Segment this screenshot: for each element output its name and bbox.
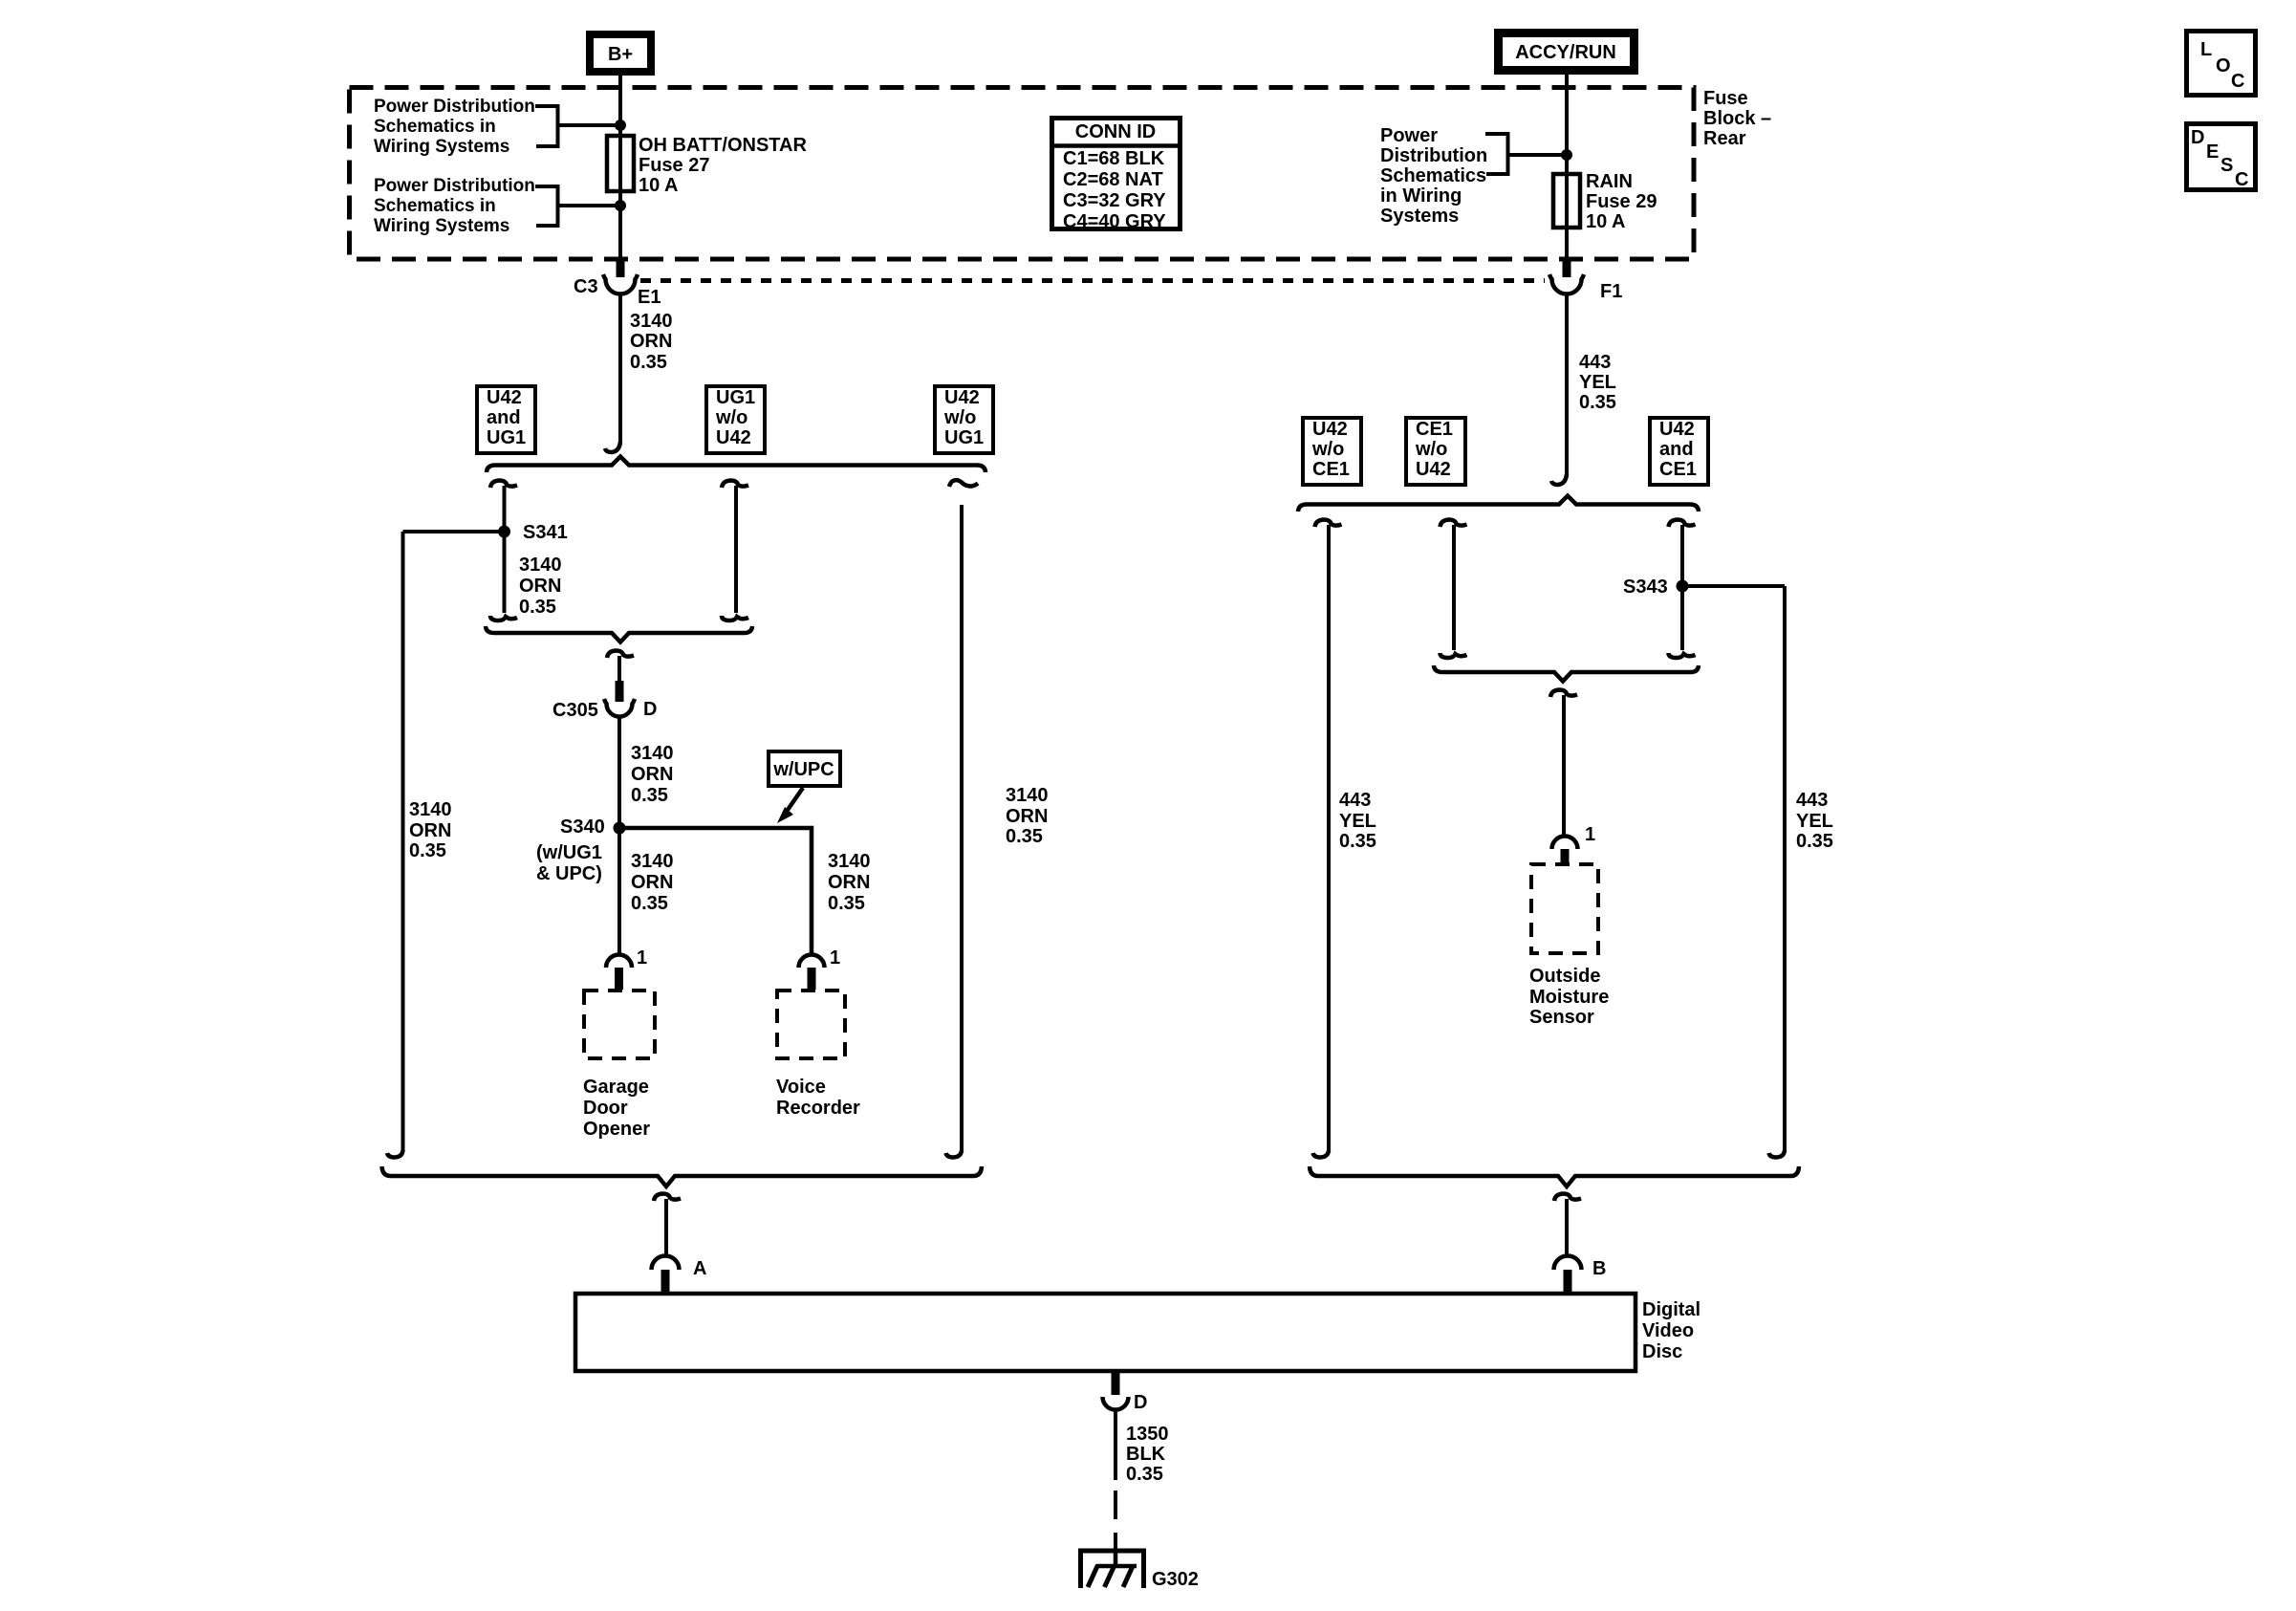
svg-text:Rear: Rear [1703, 128, 1746, 149]
svg-text:Digital: Digital [1642, 1299, 1700, 1320]
svg-text:S341: S341 [523, 522, 568, 543]
svg-text:ORN: ORN [1006, 806, 1048, 827]
svg-text:0.35: 0.35 [1796, 831, 1833, 852]
option box UG1 w/o U42 [706, 386, 765, 453]
wire to moisture sensor [1562, 695, 1566, 837]
svg-text:Door: Door [583, 1098, 628, 1119]
branch curl U42 and UG1 [490, 481, 517, 489]
splice S340 [614, 822, 626, 835]
svg-text:UG1: UG1 [716, 387, 755, 408]
connector stub C305 [616, 681, 624, 702]
junction dot lower left [615, 200, 626, 211]
wire S340 horizontal to voice recorder branch [619, 828, 812, 955]
svg-text:Schematics in: Schematics in [374, 196, 496, 216]
label wire 443 YEL right branch [1796, 790, 1833, 852]
svg-text:C4=40 GRY: C4=40 GRY [1063, 211, 1166, 232]
svg-text:Sensor: Sensor [1529, 1007, 1594, 1028]
component box Digital Video Disc [575, 1294, 1635, 1371]
connector dome moisture sensor [1552, 837, 1578, 850]
svg-text:3140: 3140 [828, 851, 871, 872]
connector stub voice recorder [808, 968, 816, 990]
wire dashed ground lead [1114, 1491, 1117, 1568]
svg-text:Outside: Outside [1529, 966, 1600, 987]
fuse F29 symbol [1553, 174, 1580, 228]
svg-text:S: S [2220, 155, 2233, 176]
svg-text:0.35: 0.35 [1339, 831, 1376, 852]
svg-text:w/o: w/o [715, 407, 747, 428]
connector F1 cup [1549, 274, 1584, 294]
svg-text:3140: 3140 [409, 799, 452, 820]
option box U42 w/o CE1 [1303, 418, 1361, 485]
branch tilde U42 w/o UG1 [949, 480, 978, 487]
svg-text:Block –: Block – [1703, 108, 1771, 129]
svg-text:U42: U42 [487, 387, 522, 408]
svg-text:C3: C3 [574, 276, 598, 297]
svg-text:443: 443 [1339, 790, 1371, 811]
branch curl U42 w/o CE1 [1315, 520, 1342, 528]
svg-text:Moisture: Moisture [1529, 987, 1609, 1008]
svg-text:and: and [1659, 439, 1694, 460]
option box CE1 w/o U42 [1406, 418, 1465, 485]
gather brace bottom right [1310, 1166, 1799, 1186]
wire to DVD pin B [1565, 1199, 1569, 1256]
wire branch U42 and CE1 [1680, 525, 1684, 650]
svg-text:w/o: w/o [1415, 439, 1447, 460]
svg-text:ORN: ORN [409, 820, 451, 841]
reference bracket lower [535, 186, 558, 226]
svg-text:C3=32 GRY: C3=32 GRY [1063, 190, 1166, 211]
label wire 3140 ORN right long [1006, 785, 1049, 847]
wire end curl right long 443 [1769, 1150, 1786, 1158]
curl below gather brace left [607, 651, 634, 659]
wire D ground lead [1114, 1409, 1117, 1480]
component box Outside Moisture Sensor [1531, 864, 1598, 953]
svg-text:D: D [1134, 1392, 1147, 1413]
wire left long vertical [401, 532, 405, 1152]
wire right long vertical [960, 505, 964, 1152]
svg-text:0.35: 0.35 [1006, 826, 1043, 847]
svg-text:0.35: 0.35 [631, 785, 668, 806]
svg-text:443: 443 [1796, 790, 1828, 811]
ground symbol G302 [1081, 1551, 1144, 1588]
svg-text:Fuse 27: Fuse 27 [639, 155, 709, 176]
component box Voice Recorder [777, 991, 845, 1058]
svg-text:443: 443 [1579, 352, 1611, 373]
svg-text:10 A: 10 A [1586, 211, 1626, 232]
wire C305 to S340 [617, 716, 621, 828]
connector stub C3 [617, 261, 625, 277]
svg-text:Recorder: Recorder [776, 1098, 860, 1119]
svg-text:w/o: w/o [1311, 439, 1344, 460]
label Fuse Block - Rear [1703, 88, 1771, 149]
svg-text:1: 1 [1585, 824, 1595, 845]
component box Garage Door Opener [584, 991, 655, 1058]
svg-text:1: 1 [830, 947, 840, 969]
wire end curl left feed [605, 442, 620, 452]
svg-text:in Wiring: in Wiring [1380, 185, 1462, 207]
connector stub garage door opener [615, 968, 623, 990]
svg-text:0.35: 0.35 [1579, 392, 1616, 413]
note Power Distribution (right side) [1380, 125, 1487, 227]
label wire 3140 ORN below C305 [631, 743, 674, 806]
arrow w/UPC [777, 788, 803, 823]
label wire 3140 ORN below S341 [519, 555, 562, 618]
label S340 [536, 816, 605, 884]
svg-text:3140: 3140 [631, 743, 674, 764]
svg-text:0.35: 0.35 [409, 840, 446, 861]
svg-text:Voice: Voice [776, 1077, 826, 1098]
svg-text:ORN: ORN [630, 331, 672, 352]
svg-text:U42: U42 [1416, 459, 1451, 480]
wire S343 horizontal [1682, 584, 1785, 588]
svg-text:Schematics in: Schematics in [374, 117, 496, 137]
svg-text:ORN: ORN [631, 872, 673, 893]
wire right long vertical (443) [1783, 586, 1787, 1152]
wire end curl right feed [1551, 474, 1567, 485]
wire branch CE1 w/o U42 [1452, 525, 1456, 650]
svg-text:w/o: w/o [943, 407, 976, 428]
svg-text:L: L [2200, 39, 2212, 60]
wire bracket lower to junction [558, 204, 621, 207]
svg-text:Schematics: Schematics [1380, 165, 1486, 186]
svg-text:F1: F1 [1600, 281, 1622, 302]
connector C3/E1 cup [603, 274, 638, 294]
connector D cup [1103, 1397, 1129, 1410]
fuse F27 symbol [607, 136, 634, 191]
svg-text:O: O [2216, 55, 2231, 76]
svg-text:C: C [2231, 71, 2244, 92]
svg-text:U42: U42 [716, 427, 751, 448]
junction dot upper left [615, 120, 626, 131]
splitter brace left top [487, 457, 986, 473]
svg-text:w/UPC: w/UPC [772, 759, 834, 780]
svg-text:E: E [2206, 142, 2219, 163]
label Garage Door Opener [583, 1077, 650, 1140]
svg-text:U42: U42 [1312, 419, 1348, 440]
svg-text:Disc: Disc [1642, 1341, 1682, 1362]
connector stub B [1564, 1270, 1572, 1293]
wire B+ feed vertical [618, 76, 622, 261]
svg-text:Garage: Garage [583, 1077, 649, 1098]
connector C305 cup [604, 699, 635, 717]
svg-text:ACCY/RUN: ACCY/RUN [1515, 42, 1616, 63]
svg-text:3140: 3140 [519, 555, 562, 576]
svg-text:(w/UG1: (w/UG1 [536, 842, 602, 863]
connector dome A [652, 1256, 680, 1271]
svg-text:UG1: UG1 [944, 427, 984, 448]
fuse block - rear dashed outline [350, 88, 1695, 260]
svg-text:BLK: BLK [1126, 1444, 1166, 1465]
svg-text:G302: G302 [1152, 1569, 1199, 1590]
label Outside Moisture Sensor [1529, 966, 1609, 1028]
branch curl UG1 w/o U42 [722, 481, 748, 489]
svg-text:ORN: ORN [828, 872, 870, 893]
wire bracket right to junction [1508, 153, 1568, 157]
connector stub F1 [1563, 261, 1571, 277]
label wire 3140 ORN left feed [630, 311, 673, 373]
power symbol ACCY/RUN [1499, 33, 1635, 71]
splice S341 [498, 526, 510, 538]
svg-text:0.35: 0.35 [828, 893, 865, 914]
connector stub moisture sensor [1561, 849, 1570, 864]
svg-text:& UPC): & UPC) [536, 863, 602, 884]
connector dome garage door opener [606, 955, 632, 968]
svg-text:0.35: 0.35 [631, 893, 668, 914]
connector stub D [1112, 1373, 1120, 1395]
wire end curl U42 w/o CE1 [1313, 1150, 1330, 1158]
branch bottom curl CE1 w/o U42 [1440, 653, 1467, 658]
curl below bottom right brace [1554, 1194, 1581, 1202]
svg-text:CONN ID: CONN ID [1075, 121, 1156, 142]
dotted in-line harness connector line [640, 278, 1545, 283]
svg-text:D: D [643, 699, 657, 720]
svg-text:0.35: 0.35 [1126, 1464, 1163, 1485]
wire end curl left long [387, 1150, 403, 1158]
junction dot right [1561, 149, 1572, 161]
svg-text:Systems: Systems [1380, 206, 1459, 227]
wire bracket upper to junction [558, 123, 621, 127]
label Digital Video Disc [1642, 1299, 1700, 1362]
note Power Distribution Schematics (lower) [374, 176, 535, 236]
wire E1 down [618, 294, 622, 445]
svg-text:D: D [2191, 127, 2204, 148]
svg-text:0.35: 0.35 [519, 597, 556, 618]
power symbol B+ [590, 34, 651, 72]
branch bottom curl U42 and CE1 [1669, 653, 1696, 658]
wire S340 down to garage door opener [617, 828, 621, 955]
label fuse 29 [1586, 171, 1657, 232]
reference bracket right [1485, 134, 1508, 174]
legend box LOC [2187, 32, 2256, 96]
svg-text:1: 1 [637, 947, 647, 969]
svg-text:Power: Power [1380, 125, 1438, 146]
svg-text:Video: Video [1642, 1320, 1694, 1341]
svg-text:CE1: CE1 [1312, 459, 1350, 480]
svg-text:1350: 1350 [1126, 1424, 1169, 1445]
svg-text:CE1: CE1 [1659, 459, 1697, 480]
label wire 3140 ORN garage branch [631, 851, 674, 914]
svg-text:ORN: ORN [519, 576, 561, 597]
gather brace bottom left [382, 1166, 983, 1186]
svg-text:B: B [1592, 1258, 1606, 1279]
svg-text:E1: E1 [638, 287, 661, 308]
svg-text:Power Distribution: Power Distribution [374, 176, 535, 196]
svg-text:3140: 3140 [1006, 785, 1049, 806]
curl below gather brace right [1550, 690, 1577, 698]
connector dome B [1554, 1256, 1582, 1271]
svg-text:B+: B+ [608, 44, 633, 65]
svg-text:C1=68 BLK: C1=68 BLK [1063, 148, 1165, 169]
note Power Distribution Schematics (upper) [374, 97, 535, 157]
branch bottom curl U42 and UG1 [490, 616, 517, 620]
gather brace right [1434, 665, 1699, 682]
svg-text:Fuse 29: Fuse 29 [1586, 191, 1657, 212]
branch bottom curl UG1 w/o U42 [722, 616, 748, 620]
svg-text:Distribution: Distribution [1380, 145, 1487, 166]
branch curl U42 and CE1 [1669, 520, 1696, 528]
option flag w/UPC [769, 751, 840, 786]
table CONN ID [1050, 119, 1180, 233]
reference bracket upper [535, 106, 558, 146]
wire ACCY/RUN feed vertical [1565, 75, 1569, 261]
svg-text:Wiring Systems: Wiring Systems [374, 137, 509, 157]
label wire 443 YEL right feed [1579, 352, 1616, 413]
wire branch U42 and UG1 [503, 486, 507, 613]
splitter brace right top [1298, 496, 1699, 512]
svg-text:CE1: CE1 [1416, 419, 1453, 440]
svg-text:Wiring Systems: Wiring Systems [374, 216, 509, 236]
svg-text:Opener: Opener [583, 1119, 650, 1140]
option box U42 and CE1 [1650, 418, 1708, 485]
svg-text:C305: C305 [552, 700, 598, 721]
svg-text:YEL: YEL [1796, 811, 1833, 832]
connector dome voice recorder [799, 955, 825, 968]
svg-text:U42: U42 [1659, 419, 1695, 440]
wire branch UG1 w/o U42 [734, 486, 738, 613]
wire branch U42 w/o CE1 long vertical [1327, 525, 1331, 1152]
svg-text:S343: S343 [1623, 577, 1668, 598]
legend box DESC [2187, 124, 2256, 191]
svg-text:0.35: 0.35 [630, 352, 667, 373]
connector stub A [661, 1270, 670, 1293]
option box U42 and UG1 [477, 386, 535, 453]
svg-text:C2=68 NAT: C2=68 NAT [1063, 169, 1163, 190]
svg-text:RAIN: RAIN [1586, 171, 1633, 192]
svg-text:YEL: YEL [1339, 811, 1376, 832]
svg-text:Power Distribution: Power Distribution [374, 97, 535, 117]
label Voice Recorder [776, 1077, 860, 1119]
splice S343 [1677, 580, 1689, 593]
svg-text:C: C [2235, 169, 2248, 190]
svg-text:YEL: YEL [1579, 372, 1616, 393]
svg-text:OH BATT/ONSTAR: OH BATT/ONSTAR [639, 135, 807, 156]
label fuse 27 [639, 135, 807, 196]
option box U42 w/o UG1 [935, 386, 993, 453]
svg-text:ORN: ORN [631, 764, 673, 785]
label wire 443 YEL left branch [1339, 790, 1376, 852]
wire F1 down [1565, 294, 1569, 477]
label wire 3140 ORN left long [409, 799, 452, 861]
svg-text:and: and [487, 407, 521, 428]
branch curl CE1 w/o U42 [1440, 520, 1467, 528]
wire S341 horizontal [403, 530, 505, 533]
svg-text:U42: U42 [944, 387, 980, 408]
wire to C305 [617, 656, 621, 683]
label wire 3140 ORN voice branch [828, 851, 871, 914]
svg-text:3140: 3140 [630, 311, 673, 332]
svg-text:3140: 3140 [631, 851, 674, 872]
svg-text:S340: S340 [560, 816, 605, 838]
svg-text:UG1: UG1 [487, 427, 526, 448]
svg-text:A: A [693, 1258, 706, 1279]
label wire 1350 BLK [1126, 1424, 1169, 1485]
svg-text:10 A: 10 A [639, 175, 679, 196]
wire end curl right long [946, 1150, 963, 1158]
svg-text:Fuse: Fuse [1703, 88, 1748, 109]
wire to DVD pin A [664, 1199, 668, 1256]
gather brace left [486, 626, 752, 642]
curl below bottom left brace [654, 1194, 681, 1202]
